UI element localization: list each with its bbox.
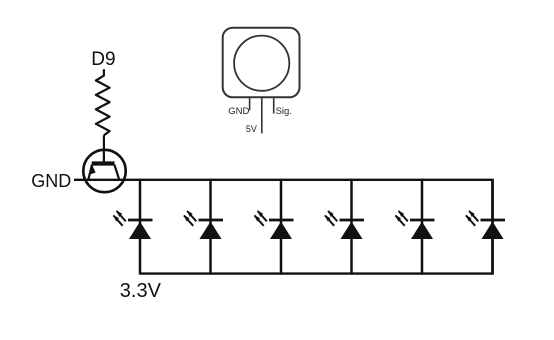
node GND xyxy=(31,172,71,190)
LED D3 xyxy=(254,210,294,239)
sensor module U1 xyxy=(223,28,300,134)
resistor D9 xyxy=(96,69,110,135)
pin label GND xyxy=(228,107,249,117)
LED D4 xyxy=(325,210,365,239)
wire bottom rail 3.3V xyxy=(140,272,493,274)
wire branch 1 xyxy=(139,179,142,275)
node 3.3V xyxy=(120,281,161,301)
LED D6 xyxy=(466,210,506,239)
wire branch 4 xyxy=(350,179,353,275)
pin Sig xyxy=(273,98,275,114)
wire branch 6 xyxy=(491,179,494,275)
LED D5 xyxy=(395,210,435,239)
wire base xyxy=(103,135,105,163)
pin 5V xyxy=(261,98,263,134)
pin GND xyxy=(249,98,251,111)
wire branch 5 xyxy=(421,179,424,275)
wire emitter-collector rail xyxy=(74,179,493,181)
pin label Sig. xyxy=(276,107,292,117)
pin label 5V xyxy=(246,125,257,134)
wire branch 2 xyxy=(209,179,212,275)
LED D1 xyxy=(113,210,153,239)
LED D2 xyxy=(184,210,224,239)
transistor Q1 xyxy=(83,150,125,192)
label D9 xyxy=(91,50,115,69)
wire branch 3 xyxy=(280,179,283,275)
